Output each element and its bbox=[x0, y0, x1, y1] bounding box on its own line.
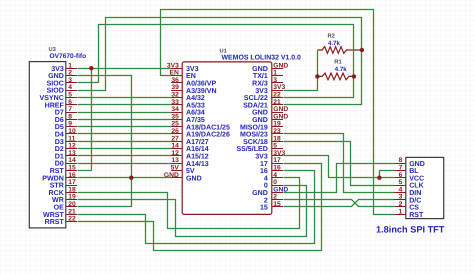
svg-text:12: 12 bbox=[68, 143, 76, 150]
wire D3 to A17/27 bbox=[78, 141, 172, 143]
wire GND: U3 pin2 down to OE pin20 bbox=[78, 76, 132, 207]
svg-text:HREF: HREF bbox=[45, 102, 65, 109]
svg-text:EN: EN bbox=[186, 73, 196, 80]
svg-text:WR: WR bbox=[52, 197, 64, 204]
U1 left pin 39 (A3/39/VN) bbox=[171, 90, 182, 92]
svg-text:WEMOS LOLIN32 V1.0.0: WEMOS LOLIN32 V1.0.0 bbox=[222, 55, 302, 62]
module 1.8inch SPI TFT body bbox=[406, 157, 444, 218]
U3 pin 22 RRST bbox=[66, 221, 77, 223]
wire BL: TFT BL down to VCC wire bbox=[380, 171, 395, 178]
svg-text:22: 22 bbox=[273, 92, 281, 99]
junction R1 left / 3V3 bbox=[315, 74, 319, 78]
wire 3V3 vertical to U3 RST pin15 bbox=[91, 69, 93, 171]
svg-text:4: 4 bbox=[68, 84, 72, 91]
junction SIOC / R1 right bbox=[352, 74, 356, 78]
U3 pin 9 D5 bbox=[66, 126, 77, 128]
svg-text:23: 23 bbox=[273, 128, 281, 135]
svg-text:3V3: 3V3 bbox=[255, 154, 268, 161]
TFT pin 4 DIN bbox=[394, 192, 406, 194]
svg-text:MISO/19: MISO/19 bbox=[240, 123, 268, 131]
svg-text:3V3: 3V3 bbox=[255, 88, 268, 95]
svg-text:4.7k: 4.7k bbox=[335, 66, 347, 73]
svg-text:BL: BL bbox=[409, 168, 419, 175]
U1 right pin 16 (16) bbox=[272, 170, 283, 172]
U1 left pin 5V (5V) bbox=[171, 170, 182, 172]
U1 right pin GND (GND) bbox=[272, 192, 283, 194]
svg-text:4: 4 bbox=[399, 186, 403, 193]
svg-text:D1: D1 bbox=[55, 153, 64, 160]
wire D7 to A6/34 bbox=[78, 112, 172, 114]
svg-text:27: 27 bbox=[171, 135, 179, 142]
svg-text:GND: GND bbox=[409, 161, 425, 168]
U1 right pin 15 (15) bbox=[272, 206, 283, 208]
svg-text:SDA/21: SDA/21 bbox=[243, 101, 268, 109]
svg-text:U1: U1 bbox=[220, 48, 227, 54]
svg-text:4.7k: 4.7k bbox=[328, 40, 340, 47]
junction SIOD / R2 right bbox=[360, 48, 364, 52]
svg-text:17: 17 bbox=[68, 179, 76, 186]
svg-text:14: 14 bbox=[68, 157, 76, 164]
svg-text:OV7670-fifo: OV7670-fifo bbox=[50, 53, 87, 60]
svg-text:16: 16 bbox=[68, 172, 76, 179]
svg-text:D7: D7 bbox=[55, 110, 64, 117]
wire 3V3: U3 pin1 to U1 3V3 bbox=[78, 68, 172, 70]
svg-text:A16/14: A16/14 bbox=[186, 145, 209, 153]
svg-text:17: 17 bbox=[273, 157, 281, 164]
svg-text:A3/39/VN: A3/39/VN bbox=[186, 87, 217, 95]
svg-text:5V: 5V bbox=[186, 168, 195, 175]
svg-text:9: 9 bbox=[68, 121, 72, 128]
svg-text:RX/3: RX/3 bbox=[252, 80, 268, 88]
wire VSYNC to A4/32 bbox=[78, 97, 172, 99]
svg-text:34: 34 bbox=[171, 106, 179, 113]
svg-text:16: 16 bbox=[260, 168, 268, 175]
wire D5 to A18/DAC1/25 bbox=[78, 126, 172, 128]
U3 pin 2 GND bbox=[66, 75, 77, 77]
wire D6 to A7/35 bbox=[78, 119, 172, 121]
svg-text:GND: GND bbox=[252, 117, 268, 124]
wire GND vertical to U1 GND left pin bbox=[132, 177, 172, 179]
IC U3 OV7670-fifo body bbox=[29, 62, 66, 228]
TFT pin 2 CS bbox=[394, 206, 406, 208]
svg-text:18: 18 bbox=[68, 186, 76, 193]
U1 left pin 12 (A15/12) bbox=[171, 155, 182, 157]
svg-text:22: 22 bbox=[68, 216, 76, 223]
wire RCK: U3 pin18 loop under U1 to GPIO4 bbox=[78, 178, 300, 229]
wire RRST: U3 pin22 loop under U1 to GPIO17 bbox=[78, 164, 322, 251]
svg-text:GND: GND bbox=[252, 110, 268, 117]
svg-text:RST: RST bbox=[50, 168, 65, 175]
svg-text:A7/35: A7/35 bbox=[186, 116, 205, 124]
U1 right pin 23 (MOSI/23) bbox=[272, 133, 283, 135]
svg-text:RCK: RCK bbox=[49, 190, 65, 197]
svg-text:TX/1: TX/1 bbox=[253, 72, 268, 80]
svg-text:STR: STR bbox=[50, 183, 64, 190]
U3 pin 14 D0 bbox=[66, 163, 77, 165]
svg-text:20: 20 bbox=[68, 201, 76, 208]
U1 right pin GND (GND) bbox=[272, 119, 283, 121]
svg-text:17: 17 bbox=[260, 161, 268, 168]
U1 left pin EN (EN) bbox=[171, 75, 182, 77]
U3 pin 3 SIOC bbox=[66, 82, 77, 84]
svg-text:A15/12: A15/12 bbox=[186, 153, 209, 161]
wire D4 to A19/DAC2/26 bbox=[78, 133, 172, 135]
U1 right pin GND (GND) bbox=[272, 112, 283, 114]
svg-text:3V3: 3V3 bbox=[51, 66, 64, 73]
svg-text:A5/33: A5/33 bbox=[186, 101, 205, 109]
junction BL / VCC bbox=[377, 176, 381, 180]
svg-text:10: 10 bbox=[68, 128, 76, 135]
junction GND node bbox=[129, 176, 133, 180]
svg-text:A19/DAC2/26: A19/DAC2/26 bbox=[186, 131, 230, 139]
svg-text:R2: R2 bbox=[328, 32, 335, 39]
svg-text:GND: GND bbox=[48, 73, 64, 80]
svg-text:25: 25 bbox=[171, 121, 179, 128]
svg-text:R1: R1 bbox=[334, 59, 342, 65]
svg-text:33: 33 bbox=[171, 99, 179, 106]
svg-text:D2: D2 bbox=[55, 146, 64, 153]
svg-text:MOSI/23: MOSI/23 bbox=[240, 131, 268, 139]
svg-text:3V3: 3V3 bbox=[186, 66, 199, 73]
svg-text:A18/DAC1/25: A18/DAC1/25 bbox=[186, 123, 230, 131]
svg-text:GND: GND bbox=[273, 62, 288, 69]
svg-text:RST: RST bbox=[409, 212, 424, 219]
U1 right pin 3V3 (3V3) bbox=[272, 90, 283, 92]
wire WRST: U3 pin21 loop under U1 to GPIO16 bbox=[78, 171, 315, 244]
U1 left pin 32 (A4/32) bbox=[171, 97, 182, 99]
U1 right pin 21 (SDA/21) bbox=[272, 104, 283, 106]
U3 pin 6 HREF bbox=[66, 104, 77, 106]
U1 right pin 5 (SS/5/LED) bbox=[272, 148, 283, 150]
svg-text:4: 4 bbox=[273, 172, 277, 179]
U1 right pin 2 (2) bbox=[272, 199, 283, 201]
U1 left pin 35 (A7/35) bbox=[171, 119, 182, 121]
U3 pin 16 PWDN bbox=[66, 177, 77, 179]
U1 left pin 25 (A18/DAC1/25) bbox=[171, 126, 182, 128]
svg-text:1.8inch SPI TFT: 1.8inch SPI TFT bbox=[376, 224, 445, 234]
TFT pin 6 VCC bbox=[394, 177, 406, 179]
U1 left pin 13 (A14/13) bbox=[171, 163, 182, 165]
svg-text:D4: D4 bbox=[55, 132, 64, 139]
U1 left pin 36 (A0/36/VP) bbox=[171, 82, 182, 84]
svg-text:SIOC: SIOC bbox=[47, 80, 64, 87]
svg-text:2: 2 bbox=[68, 70, 72, 77]
U1 right pin 1 (TX/1) bbox=[272, 75, 283, 77]
U3 pin 19 WR bbox=[66, 199, 77, 201]
wire U3 RST pin15 stub to vertical bbox=[78, 170, 92, 172]
U3 pin 4 SIOD bbox=[66, 90, 77, 92]
U3 pin 10 D4 bbox=[66, 133, 77, 135]
svg-text:D6: D6 bbox=[55, 117, 64, 124]
U3 pin 7 D7 bbox=[66, 112, 77, 114]
U3 pin 8 D6 bbox=[66, 119, 77, 121]
svg-text:GND: GND bbox=[252, 66, 268, 73]
U1 right pin 3V3 (3V3) bbox=[272, 155, 283, 157]
svg-text:6: 6 bbox=[399, 172, 403, 179]
U1 left pin 33 (A5/33) bbox=[171, 104, 182, 106]
svg-text:13: 13 bbox=[171, 157, 179, 164]
svg-text:GND: GND bbox=[273, 113, 288, 120]
resistor R2 4.7k bbox=[317, 47, 362, 54]
svg-text:1: 1 bbox=[68, 62, 72, 69]
wire CLK: U1 SCK/18 down to TFT CLK bbox=[284, 142, 395, 186]
svg-text:11: 11 bbox=[68, 135, 75, 142]
svg-text:19: 19 bbox=[68, 194, 76, 201]
svg-text:D5: D5 bbox=[55, 124, 64, 131]
svg-text:A14/13: A14/13 bbox=[186, 160, 209, 168]
svg-text:VCC: VCC bbox=[409, 175, 424, 182]
wire EN: U1 EN up over the top and down to TFT RST bbox=[161, 10, 395, 215]
wire WR: U3 pin19 loop under U1 to GPIO0 bbox=[78, 186, 307, 237]
svg-text:0: 0 bbox=[264, 183, 268, 190]
svg-text:7: 7 bbox=[399, 165, 403, 172]
svg-text:15: 15 bbox=[68, 165, 76, 172]
svg-text:3: 3 bbox=[399, 194, 403, 201]
svg-text:6: 6 bbox=[68, 99, 72, 106]
U1 right pin 4 (4) bbox=[272, 177, 283, 179]
wire 3V3 pullups: U1 3V3 right pin up to R1/R2 left bbox=[284, 51, 318, 91]
svg-text:14: 14 bbox=[171, 143, 179, 150]
resistor R1 4.7k bbox=[317, 73, 354, 80]
svg-text:1: 1 bbox=[273, 70, 277, 77]
svg-text:VSYNC: VSYNC bbox=[40, 95, 64, 102]
svg-text:WRST: WRST bbox=[43, 212, 64, 219]
U1 left pin 27 (A17/27) bbox=[171, 141, 182, 143]
TFT pin 5 CLK bbox=[394, 185, 406, 187]
svg-text:SS/5/LED: SS/5/LED bbox=[236, 145, 267, 153]
U1 left pin GND (GND) bbox=[171, 177, 182, 179]
svg-text:2: 2 bbox=[273, 194, 277, 201]
svg-text:21: 21 bbox=[273, 99, 281, 106]
svg-text:A6/34: A6/34 bbox=[186, 109, 205, 117]
svg-text:8: 8 bbox=[399, 157, 403, 164]
U3 pin 18 RCK bbox=[66, 192, 77, 194]
svg-text:5: 5 bbox=[399, 179, 403, 186]
svg-text:SIOD: SIOD bbox=[47, 88, 64, 95]
svg-text:D0: D0 bbox=[55, 161, 64, 168]
wire HREF to A5/33 bbox=[78, 104, 172, 106]
U3 pin 21 WRST bbox=[66, 214, 77, 216]
U1 right pin 0 (0) bbox=[272, 185, 283, 187]
svg-text:A4/32: A4/32 bbox=[186, 94, 205, 102]
junction 3V3 node bbox=[89, 66, 93, 70]
svg-text:26: 26 bbox=[171, 128, 179, 135]
U1 right pin 19 (MISO/19) bbox=[272, 126, 283, 128]
U1 right pin 18 (SCK/18) bbox=[272, 141, 283, 143]
svg-text:DIN: DIN bbox=[409, 190, 421, 197]
wire SIOD: U3 pin4 up over to R2 right and down to U1 SDA/21 bbox=[78, 18, 362, 105]
wire D1 to A15/12 bbox=[78, 155, 172, 157]
svg-text:0: 0 bbox=[273, 179, 277, 186]
U1 left pin 26 (A19/DAC2/26) bbox=[171, 133, 182, 135]
TFT pin 8 GND bbox=[394, 163, 406, 165]
svg-text:GND: GND bbox=[273, 106, 288, 113]
U1 right pin GND (GND) bbox=[272, 68, 283, 70]
svg-text:CS: CS bbox=[409, 205, 419, 212]
svg-text:SCL/22: SCL/22 bbox=[244, 94, 268, 102]
svg-text:19: 19 bbox=[273, 121, 281, 128]
svg-text:D/C: D/C bbox=[409, 196, 421, 204]
svg-text:35: 35 bbox=[171, 113, 179, 120]
wire D/C: U1 GPIO15 crossing up to TFT D/C bbox=[284, 200, 395, 207]
svg-text:18: 18 bbox=[273, 135, 281, 142]
svg-text:RRST: RRST bbox=[45, 219, 65, 226]
svg-text:GND: GND bbox=[186, 175, 202, 182]
TFT pin 7 BL bbox=[394, 170, 406, 172]
U1 right pin 22 (SCL/22) bbox=[272, 97, 283, 99]
svg-text:A17/27: A17/27 bbox=[186, 138, 209, 146]
U3 pin 1 3V3 bbox=[66, 68, 77, 70]
wire PWDN row to GND vertical bbox=[78, 177, 132, 179]
svg-text:2: 2 bbox=[399, 201, 403, 208]
wire D0 to A14/13 bbox=[78, 163, 172, 165]
svg-text:3: 3 bbox=[68, 77, 72, 84]
IC U1 WEMOS LOLIN32 body bbox=[182, 62, 272, 215]
svg-text:13: 13 bbox=[68, 150, 76, 157]
svg-text:12: 12 bbox=[171, 150, 179, 157]
svg-text:5: 5 bbox=[273, 143, 277, 150]
wire DIN: U1 MOSI/23 down to TFT DIN bbox=[284, 134, 395, 193]
svg-text:7: 7 bbox=[68, 106, 72, 113]
U1 right pin 17 (17) bbox=[272, 163, 283, 165]
U3 pin 17 STR bbox=[66, 185, 77, 187]
svg-text:GND: GND bbox=[252, 190, 268, 197]
svg-text:A0/36/VP: A0/36/VP bbox=[186, 80, 216, 88]
U3 pin 11 D3 bbox=[66, 141, 77, 143]
U3 pin 13 D1 bbox=[66, 155, 77, 157]
svg-text:D3: D3 bbox=[55, 139, 64, 146]
wire SIOC: U3 pin3 up over to R1 right and down to U1 SCL/22 bbox=[78, 25, 354, 98]
svg-text:5: 5 bbox=[68, 92, 72, 99]
svg-text:3: 3 bbox=[273, 77, 277, 84]
U1 left pin 14 (A16/14) bbox=[171, 148, 182, 150]
TFT pin 1 RST bbox=[394, 214, 406, 216]
svg-text:SCK/18: SCK/18 bbox=[243, 138, 268, 146]
svg-text:36: 36 bbox=[171, 77, 179, 84]
U3 pin 12 D2 bbox=[66, 148, 77, 150]
svg-text:21: 21 bbox=[68, 208, 76, 215]
svg-text:32: 32 bbox=[171, 92, 179, 99]
U1 left pin 3V3 (3V3) bbox=[171, 68, 182, 70]
svg-text:5V: 5V bbox=[171, 165, 180, 172]
wire CS: U1 GPIO2 crossing down to TFT CS bbox=[284, 200, 395, 207]
svg-text:1: 1 bbox=[399, 208, 403, 215]
wire GND: U1 GND right pin up to TFT GND bbox=[284, 164, 395, 193]
U3 pin 5 VSYNC bbox=[66, 97, 77, 99]
U3 pin 15 RST bbox=[66, 170, 77, 172]
svg-text:8: 8 bbox=[68, 113, 72, 120]
svg-text:OE: OE bbox=[54, 205, 64, 212]
U3 pin 20 OE bbox=[66, 206, 77, 208]
svg-text:PWDN: PWDN bbox=[42, 175, 64, 182]
U1 right pin 3 (RX/3) bbox=[272, 82, 283, 84]
svg-text:16: 16 bbox=[273, 165, 281, 172]
svg-text:CLK: CLK bbox=[409, 183, 424, 190]
svg-text:15: 15 bbox=[273, 201, 281, 208]
svg-text:15: 15 bbox=[260, 205, 268, 212]
wire VCC: U1 3V3 down to TFT VCC bbox=[284, 156, 395, 178]
svg-text:4: 4 bbox=[264, 175, 268, 182]
U1 left pin 34 (A6/34) bbox=[171, 112, 182, 114]
svg-text:2: 2 bbox=[264, 197, 268, 204]
wire D2 to A16/14 bbox=[78, 148, 172, 150]
svg-text:39: 39 bbox=[171, 84, 179, 91]
TFT pin 3 D/C bbox=[394, 199, 406, 201]
